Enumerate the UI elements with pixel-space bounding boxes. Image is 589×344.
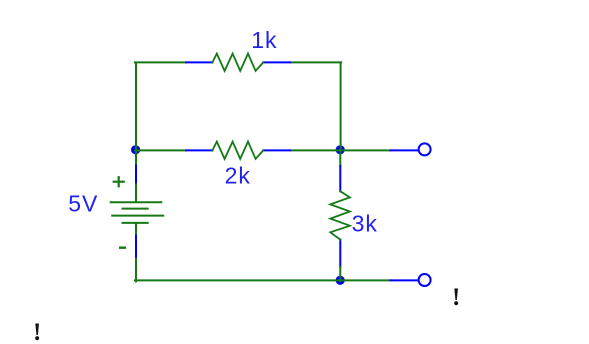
wire node B down to R3 <box>339 150 341 166</box>
resistor R1 1k (blue pin leads + green zigzag, horizontal top) <box>186 54 290 71</box>
wire battery down to bottom rail <box>135 259 137 281</box>
battery minus sign <box>120 246 125 248</box>
wire middle rail right segment (R2 to node B) <box>290 149 340 151</box>
wire middle rail left segment (node A to R2) <box>135 149 186 151</box>
svg-text:1k: 1k <box>251 27 277 53</box>
svg-text:!: ! <box>452 284 460 311</box>
wire top-left vertical (node A up to top rail) <box>135 63 137 150</box>
wire bottom rail <box>135 279 341 281</box>
battery plus sign <box>114 177 124 186</box>
wire top rail left segment <box>135 61 186 63</box>
wire R3 down to node C <box>339 267 341 281</box>
battery V1 (blue pin leads + four green plates) <box>111 166 164 260</box>
terminal T2 (bottom output, blue pin lead + open circle) <box>391 274 431 286</box>
wire node A down to battery <box>135 150 137 166</box>
resistor R3 3k (blue pin leads + green zigzag, vertical right) <box>330 166 350 267</box>
terminal T1 (top output, blue pin lead + open circle) <box>391 143 431 155</box>
node A (junction dot, left middle) <box>131 145 140 154</box>
wire node B to top terminal <box>340 149 391 151</box>
wire top rail right segment <box>290 61 341 63</box>
wire top-right vertical (top rail down to node B) <box>340 62 342 150</box>
svg-text:!: ! <box>33 319 41 344</box>
svg-text:3k: 3k <box>352 211 378 237</box>
wire node C to bottom terminal <box>340 279 391 281</box>
svg-text:2k: 2k <box>225 162 251 188</box>
node C (junction dot, right bottom) <box>336 276 345 285</box>
svg-text:5V: 5V <box>68 191 98 217</box>
resistor R2 2k (blue pin leads + green zigzag, horizontal middle) <box>186 142 290 159</box>
node B (junction dot, right middle) <box>336 145 345 154</box>
